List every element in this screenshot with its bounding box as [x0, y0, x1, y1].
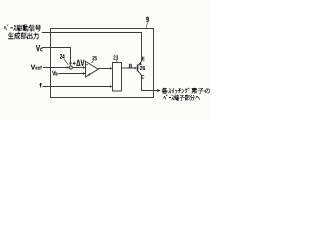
wire: output exits box [154, 90, 158, 92]
block 23 rect [113, 63, 122, 92]
leader 25 [92, 61, 94, 63]
comparator plus mark [88, 73, 90, 76]
arrowhead comp out [110, 67, 113, 70]
transistor 26 base bar [137, 65, 139, 72]
jp text: to each switching element line1 [162, 88, 211, 94]
leader 26 [138, 67, 139, 69]
transistor 26 emitter diagonal [138, 62, 142, 66]
arrowhead base [134, 67, 137, 70]
transistor 26 collector diagonal [138, 71, 142, 75]
arrowhead junction out [83, 66, 86, 69]
enclosing box 9 [51, 29, 154, 98]
label Vb [52, 71, 57, 76]
jp text: to each switching element line2 [164, 95, 201, 101]
wire Vc [42, 48, 71, 63]
wire: summing junction output [73, 67, 84, 69]
wire: collector output [142, 75, 154, 90]
jp text: base drive signal generator output line1 [4, 24, 41, 31]
wire: block to base [122, 67, 135, 69]
wire Vref [43, 67, 67, 69]
label 26 [140, 66, 145, 70]
wire Vb [59, 73, 84, 75]
label B [129, 64, 132, 68]
leader 9 [146, 23, 147, 28]
leader 24 [64, 59, 69, 65]
label C [142, 75, 145, 79]
label f [39, 83, 41, 87]
label Vref [31, 65, 42, 70]
comparator minus mark [86, 63, 88, 66]
arrowhead Vb [83, 72, 86, 75]
arrowhead output [157, 89, 160, 92]
label 9 [146, 17, 149, 23]
jp text: base drive signal generator output line2 [8, 32, 38, 39]
leader 23 [116, 60, 117, 63]
arrowhead Vref [67, 66, 70, 69]
wire: generator output to emitter [42, 33, 142, 62]
comparator 25 triangle [86, 61, 99, 77]
arrowhead f [110, 85, 113, 88]
arrowhead Vc down [69, 63, 72, 66]
label Vc [36, 45, 43, 51]
wire f [43, 86, 110, 88]
label E [142, 57, 144, 61]
label 25 [92, 56, 96, 60]
label 23 [113, 55, 118, 59]
label 24 [60, 54, 65, 59]
wire: comparator output [98, 68, 110, 70]
arrowhead emitter (PNP) [139, 62, 142, 65]
label +dV [73, 60, 85, 66]
summing junction 24 circle [69, 66, 72, 69]
